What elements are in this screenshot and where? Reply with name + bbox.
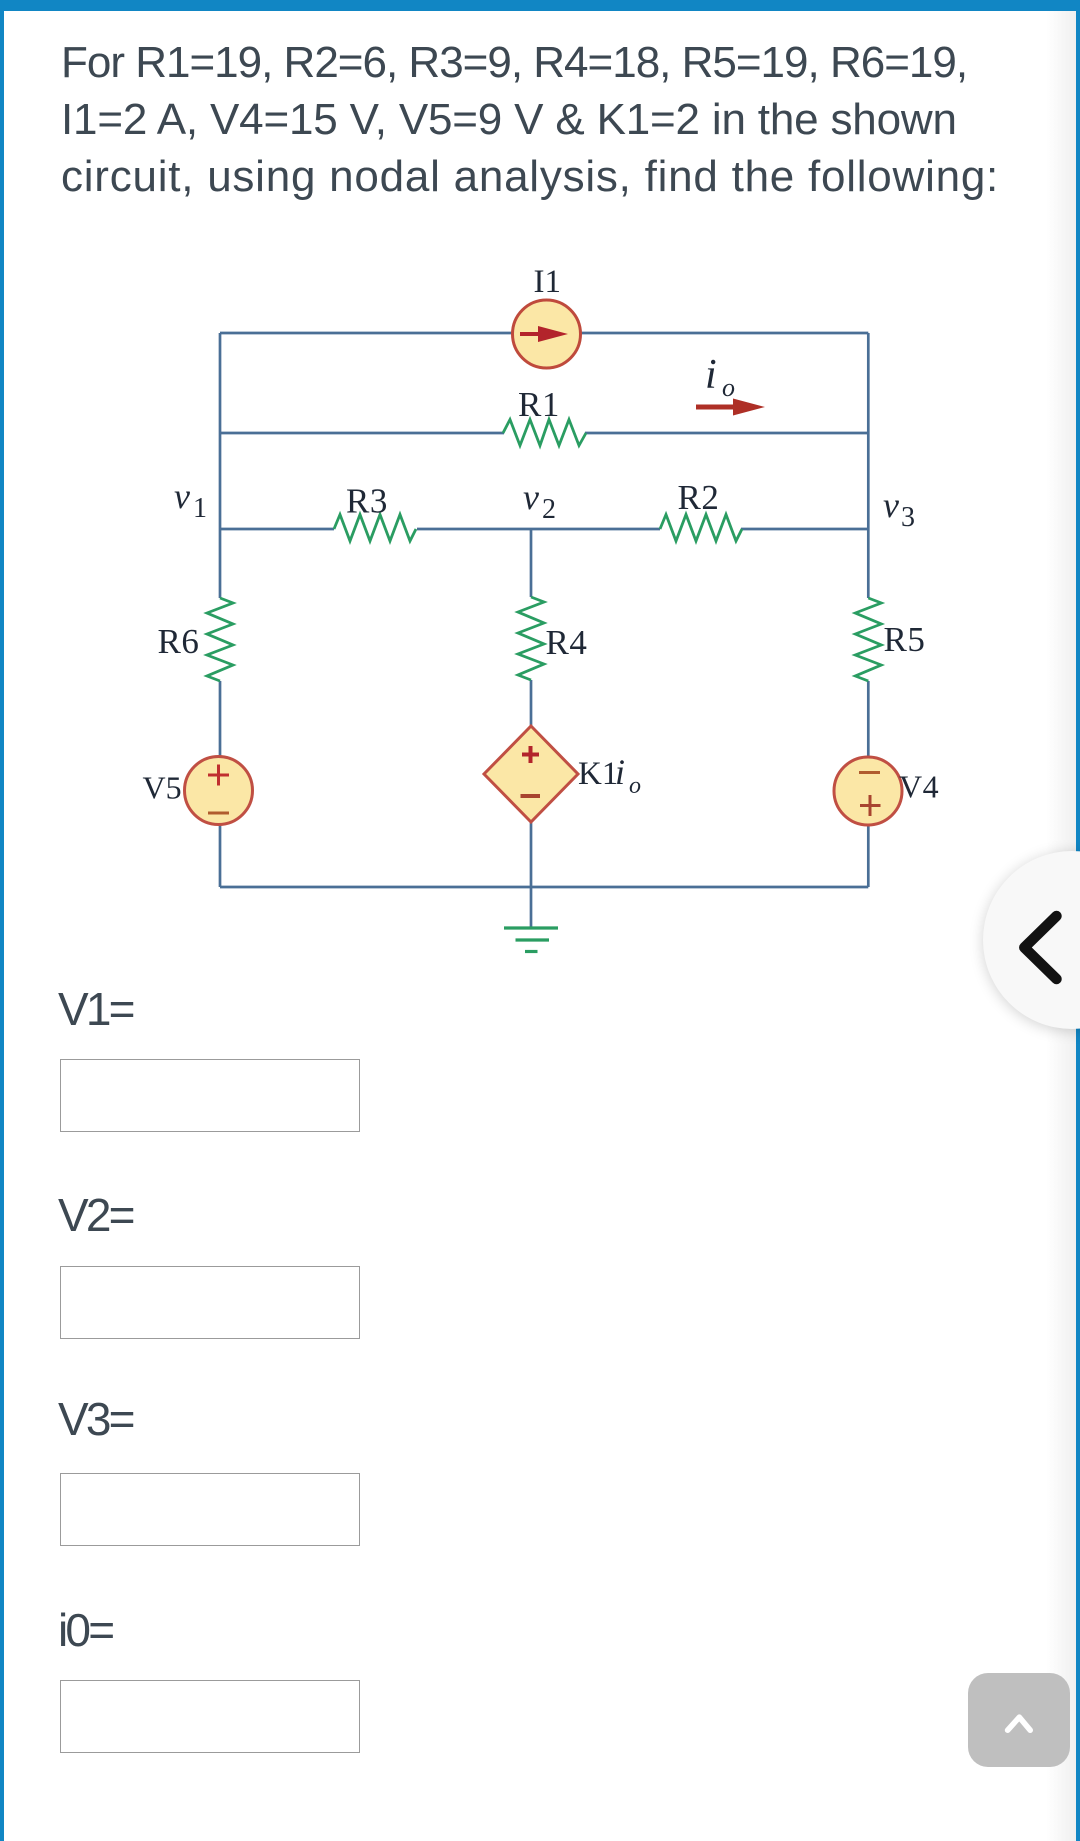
answer input V3 xyxy=(60,1473,360,1546)
svg-text:K1: K1 xyxy=(578,756,618,792)
svg-text:R6: R6 xyxy=(158,622,200,661)
wire R2 to v3 xyxy=(741,528,868,531)
svg-text:2: 2 xyxy=(542,494,556,525)
label io xyxy=(705,352,735,402)
wire middle vertical R4 to diamond xyxy=(530,680,533,727)
svg-text:V5: V5 xyxy=(143,770,182,806)
svg-text:R3: R3 xyxy=(346,482,388,521)
resistor R2 xyxy=(660,515,742,542)
svg-text:R5: R5 xyxy=(884,620,926,659)
right blue stripe xyxy=(1076,0,1080,1841)
svg-text:R2: R2 xyxy=(678,478,720,517)
svg-text:i: i xyxy=(705,352,717,398)
wire right vertical upper (v3 branch) xyxy=(867,333,870,598)
resistor R6 xyxy=(207,598,233,681)
circuit schematic svg xyxy=(0,0,1080,1000)
resistor R3 xyxy=(334,515,416,542)
wire right vertical R5 to V4 xyxy=(867,681,870,758)
answer input V1 xyxy=(60,1059,360,1132)
wire v1 to R3 xyxy=(220,528,334,531)
wire middle vertical v2 to R4 xyxy=(530,529,533,597)
question text xyxy=(61,34,999,205)
dependent source K1io (diamond) xyxy=(484,726,578,822)
svg-text:R1: R1 xyxy=(518,385,560,424)
wire top (node v_top) xyxy=(220,332,868,335)
wire left vertical R6 to V5 xyxy=(219,681,222,758)
svg-text:v: v xyxy=(883,485,899,525)
svg-text:I1: I1 xyxy=(534,264,562,300)
voltage source V5 xyxy=(185,757,253,825)
scroll-to-top button xyxy=(968,1673,1070,1767)
answer label V1= xyxy=(58,982,133,1036)
answer label V2= xyxy=(58,1188,133,1242)
wire R1-row left segment xyxy=(220,432,504,435)
answer label V3= xyxy=(58,1392,133,1446)
svg-text:R4: R4 xyxy=(546,623,588,662)
current io arrow xyxy=(696,399,765,416)
side panel toggle circle with chevron xyxy=(983,851,1080,1029)
wire right vertical V4 to bottom xyxy=(867,822,870,887)
wire middle vertical diamond to bottom xyxy=(530,821,533,887)
node label v1 xyxy=(174,476,207,524)
resistor R5 xyxy=(855,598,881,681)
answer label i0= xyxy=(58,1603,112,1657)
resistor R1 xyxy=(503,420,586,446)
voltage source V4 xyxy=(834,757,902,825)
svg-text:v: v xyxy=(523,477,539,517)
node label v2 xyxy=(523,477,556,525)
svg-text:o: o xyxy=(722,373,735,402)
wire bottom xyxy=(220,886,868,889)
right edge shadow gradient xyxy=(1046,11,1076,1841)
svg-text:o: o xyxy=(629,773,641,799)
wire left vertical V5 to bottom xyxy=(219,822,222,887)
node label v3 xyxy=(883,485,915,533)
wire R3 to R2 through v2 xyxy=(417,528,660,531)
current source I1 xyxy=(513,300,581,368)
svg-text:V4: V4 xyxy=(899,769,939,805)
ground xyxy=(504,928,558,952)
left blue stripe xyxy=(0,0,4,1841)
svg-text:3: 3 xyxy=(901,502,915,533)
svg-text:i: i xyxy=(615,752,625,792)
answer input V2 xyxy=(60,1266,360,1339)
label K1io xyxy=(578,752,641,799)
answer input i0 xyxy=(60,1680,360,1753)
svg-text:v: v xyxy=(174,476,190,516)
top blue bar xyxy=(0,0,1080,11)
svg-text:1: 1 xyxy=(193,493,207,524)
resistor R4 xyxy=(518,597,544,680)
wire left vertical upper (v1 branch) xyxy=(219,333,222,598)
wire ground stem xyxy=(530,887,533,927)
wire R1-row right segment xyxy=(585,432,868,435)
